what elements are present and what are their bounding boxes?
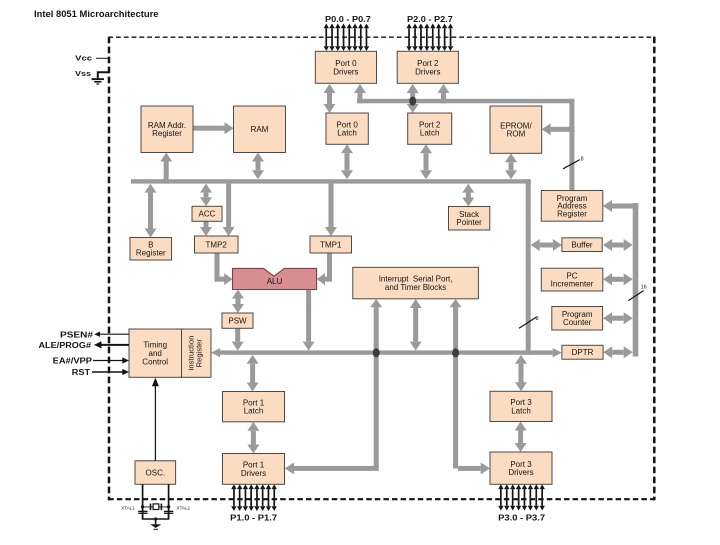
wire RST arrow: [92, 369, 129, 375]
svg-text:ROM: ROM: [507, 130, 526, 139]
block Timing and Control: [129, 329, 182, 377]
svg-text:Latch: Latch: [337, 129, 357, 138]
ground symbol at Vss: [92, 78, 104, 84]
wire P0 pin arrows: [324, 24, 370, 52]
wire Port 2 Latch to bus2 double arrow: [420, 144, 432, 179]
svg-text:Register: Register: [194, 339, 203, 368]
block Port 0 Drivers: [315, 51, 376, 83]
wire Interrupt middle line to bus3 double arrow: [410, 299, 422, 351]
wire Vcc lead: [96, 57, 109, 59]
wire bus2 down into TMP1: [325, 184, 337, 236]
svg-text:ALE/PROG#: ALE/PROG#: [39, 341, 92, 350]
block PC Incrementer: [541, 268, 603, 291]
wire TMP1 to ALU elbow: [317, 253, 332, 285]
svg-text:Register: Register: [557, 210, 587, 219]
svg-text:Drivers: Drivers: [241, 469, 266, 478]
wire EA#/VPP arrow: [93, 357, 129, 363]
svg-text:XTAL2: XTAL2: [176, 505, 190, 510]
wire ALU output down into bus3: [303, 290, 315, 351]
wire Port 1 Latch/Drivers double arrow: [247, 422, 259, 454]
wire RAM Addr Register to RAM arrow: [193, 122, 234, 134]
wire Interrupt right line to Port 3 Drivers: [450, 299, 490, 474]
bus width slash 8 on left vertical bus: [519, 316, 539, 328]
wire P3 pin arrows: [498, 484, 545, 510]
svg-text:XTAL1: XTAL1: [121, 505, 135, 510]
svg-text:EA#/VPP: EA#/VPP: [53, 356, 93, 365]
svg-text:Vcc: Vcc: [75, 53, 92, 62]
junction dot XTAL1: [141, 505, 144, 508]
svg-text:TMP2: TMP2: [206, 240, 228, 249]
svg-text:Vss: Vss: [75, 69, 91, 78]
wire PSEN# arrow: [94, 332, 129, 337]
junction on bus3 at interrupt right line: [452, 348, 459, 357]
wire Port 3 Latch/Drivers double arrow: [515, 422, 527, 453]
wire ACC to bus2 double arrow: [200, 184, 212, 207]
block Program Address Register: [541, 191, 603, 222]
junction on bus1 at Port 2 arrow: [409, 97, 416, 106]
svg-text:PSEN#: PSEN#: [60, 330, 94, 339]
wire Interrupt left line to Port 1 Drivers: [285, 299, 383, 474]
wire DPTR to program bus double arrow: [603, 346, 633, 358]
wire ACC to TMP2 arrow: [200, 221, 212, 236]
svg-text:Latch: Latch: [511, 406, 531, 415]
svg-text:P2.0 - P2.7: P2.0 - P2.7: [407, 15, 453, 24]
svg-text:PSW: PSW: [228, 317, 247, 326]
wire PC Incrementer to program bus double arrow: [603, 273, 633, 285]
svg-text:Incrementer: Incrementer: [551, 280, 594, 289]
wire OSC to Timing and Control arrow: [152, 378, 159, 461]
bus width slash 8 near EPROM feed: [563, 157, 584, 169]
wire bus2 (main internal bus): [131, 179, 531, 183]
svg-text:16: 16: [641, 284, 647, 290]
block TMP2: [195, 236, 239, 253]
wire EPROM to bus2 double arrow: [505, 153, 517, 179]
block Buffer: [562, 238, 602, 252]
svg-text:Register: Register: [136, 249, 166, 258]
svg-text:TMP1: TMP1: [320, 240, 342, 249]
block RAM Addr Register: [141, 106, 193, 153]
block Interrupt Serial Port and Timer Blocks: [353, 267, 479, 299]
block ACC: [192, 206, 222, 221]
svg-text:OSC.: OSC.: [146, 468, 166, 477]
crystal Y1 plates: [150, 504, 163, 511]
wire Program Counter to program bus double arrow: [603, 312, 633, 324]
block Program Counter: [552, 307, 603, 331]
wire Vss lead: [98, 72, 109, 78]
wire P2 pin arrows: [406, 24, 453, 52]
svg-text:Pointer: Pointer: [456, 218, 482, 227]
wire bus3 to Port 1 Latch double arrow: [247, 355, 259, 392]
block OSC: [135, 461, 176, 485]
dashed chip boundary: [108, 37, 655, 501]
wire bus3 (lower bus) with arrows into Instruction Register and DPTR: [211, 348, 562, 357]
svg-text:Latch: Latch: [420, 129, 440, 138]
svg-text:8: 8: [536, 316, 539, 322]
block Port 3 Drivers: [490, 452, 552, 484]
block Port 1 Latch: [223, 392, 285, 422]
wire bus2 down into TMP2: [223, 184, 235, 236]
wire Stack Pointer to bus2 double arrow: [462, 184, 474, 207]
svg-text:P1.0 - P1.7: P1.0 - P1.7: [230, 513, 278, 522]
ground symbol below crystal: [150, 524, 161, 530]
svg-text:Drivers: Drivers: [333, 67, 358, 76]
block Stack Pointer: [449, 207, 490, 231]
wire P1 pin arrows: [231, 484, 277, 511]
svg-text:ACC: ACC: [199, 210, 216, 219]
wire vertical feed arrow into EPROM/ROM: [542, 123, 575, 135]
capacitor C1 plates: [138, 511, 147, 514]
wire Buffer to left vertical double arrow: [531, 239, 562, 251]
svg-text:ALU: ALU: [267, 277, 283, 286]
block DPTR: [562, 345, 603, 359]
wire ALU to PSW double arrow: [232, 290, 244, 314]
bus width slash 16 on program bus: [628, 284, 647, 300]
svg-text:Drivers: Drivers: [508, 468, 533, 477]
block Port 1 Drivers: [223, 454, 285, 485]
block Port 2 Drivers: [397, 51, 458, 83]
block Instruction Register (rotated text): [182, 329, 212, 377]
crystal Y1 body: [153, 504, 159, 510]
svg-text:8: 8: [581, 157, 584, 163]
svg-text:and Timer Blocks: and Timer Blocks: [385, 283, 446, 292]
block ALU: [233, 268, 317, 289]
svg-text:RST: RST: [72, 368, 90, 377]
wire bus2 right elbow down to bus3: [526, 179, 531, 355]
block B Register: [130, 238, 172, 261]
block Port 2 Latch: [408, 113, 452, 144]
junction dot ground join: [154, 517, 157, 520]
wire arrow bus1 up into Port 0 Drivers: [354, 84, 366, 103]
wire bus1 (top internal bus): [357, 99, 574, 104]
svg-text:Control: Control: [142, 357, 168, 366]
block TMP1: [310, 236, 352, 253]
wire XTAL2 lead from OSC: [168, 484, 170, 519]
wire bus1 right elbow down to Program Address Register: [569, 99, 574, 191]
wire RAM to bus2 double arrow: [252, 153, 264, 180]
svg-text:Buffer: Buffer: [571, 241, 593, 250]
block PSW: [222, 313, 253, 328]
wire bus3 to Port 3 Latch double arrow: [515, 355, 527, 392]
svg-text:Latch: Latch: [244, 407, 264, 416]
wire PSW down into bus3: [232, 328, 244, 350]
wire right program bus bar: [633, 203, 639, 357]
svg-text:Intel 8051 Microarchitecture: Intel 8051 Microarchitecture: [34, 8, 159, 19]
svg-text:Drivers: Drivers: [415, 67, 440, 76]
block RAM: [234, 106, 286, 153]
wire Port 0 Latch to bus2 double arrow: [341, 144, 353, 179]
junction dot XTAL2: [167, 505, 170, 508]
block Port 3 Latch: [490, 391, 552, 421]
wire TMP2 to ALU elbow: [215, 253, 233, 285]
wire ALE/PROG# arrow: [94, 341, 129, 348]
svg-text:DPTR: DPTR: [572, 348, 594, 357]
svg-text:RAM: RAM: [251, 125, 269, 134]
wire Buffer to program bus double arrow: [603, 239, 633, 251]
junction on bus3 at interrupt left line: [373, 348, 380, 357]
capacitor C2 plates: [164, 511, 173, 514]
svg-text:P3.0 - P3.7: P3.0 - P3.7: [498, 513, 546, 522]
wire XTAL1 lead from OSC: [142, 484, 144, 519]
wire Port 0 Drivers/Latch double arrow: [324, 84, 336, 113]
wire crystal ground join: [143, 514, 169, 524]
wire crystal leads: [143, 506, 169, 508]
svg-text:Register: Register: [152, 129, 182, 138]
svg-text:P0.0 - P0.7: P0.0 - P0.7: [325, 15, 371, 24]
wire program bus arm into Program Address Register: [603, 200, 638, 212]
wire bus2 up into RAM Addr Register: [160, 153, 172, 184]
block EPROM/ROM: [490, 106, 542, 153]
wire B Register to bus2 double arrow: [145, 184, 157, 238]
block Port 0 Latch: [326, 113, 368, 144]
wire arrow bus1 up into Port 2 Drivers: [438, 84, 450, 103]
svg-text:Counter: Counter: [563, 318, 592, 327]
wire Port 2 Drivers/Latch double arrow: [407, 84, 419, 113]
